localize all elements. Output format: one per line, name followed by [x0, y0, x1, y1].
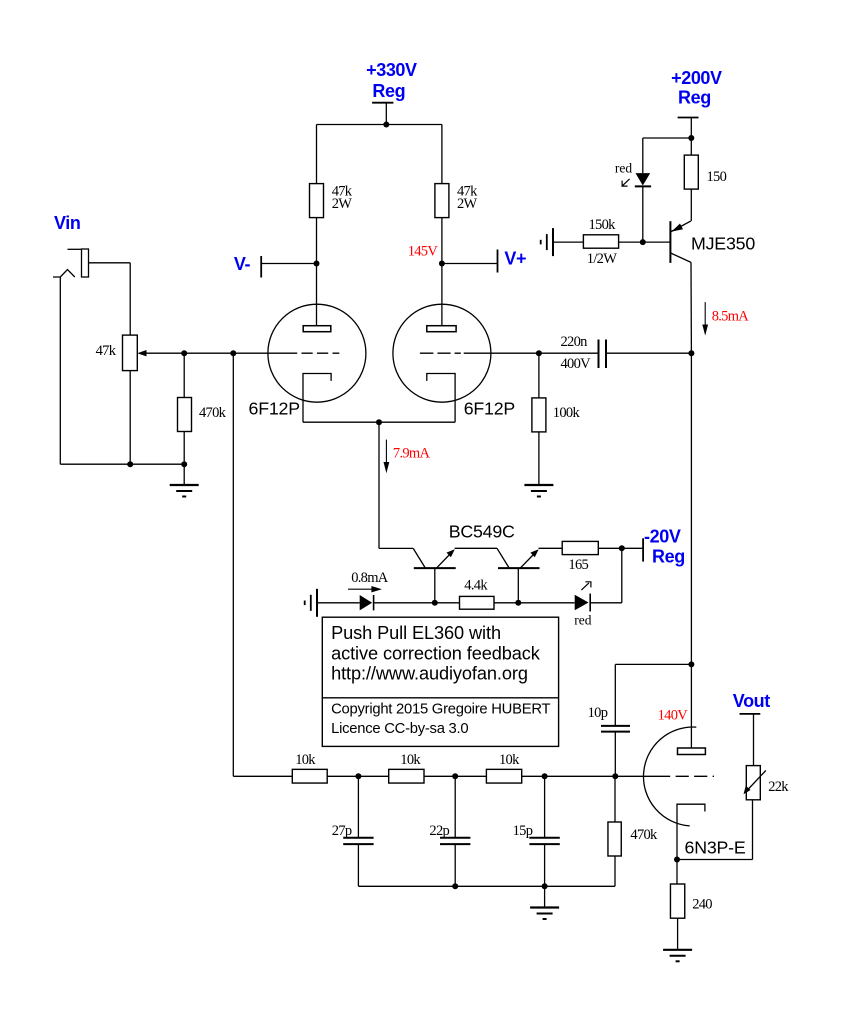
svg-text:470k: 470k — [630, 827, 658, 843]
svg-text:22k: 22k — [768, 779, 789, 795]
svg-text:165: 165 — [568, 557, 588, 573]
svg-text:red: red — [574, 613, 591, 628]
svg-text:15p: 15p — [513, 823, 533, 839]
svg-text:47k: 47k — [96, 343, 117, 359]
svg-text:+200V: +200V — [671, 68, 722, 88]
svg-text:220n: 220n — [561, 334, 589, 350]
svg-text:145V: 145V — [408, 244, 439, 260]
svg-text:Vout: Vout — [733, 691, 770, 711]
svg-text:1/2W: 1/2W — [587, 251, 617, 267]
svg-text:Licence CC-by-sa 3.0: Licence CC-by-sa 3.0 — [331, 721, 468, 737]
svg-text:4.4k: 4.4k — [464, 578, 488, 594]
svg-text:2W: 2W — [457, 196, 478, 212]
svg-text:470k: 470k — [199, 405, 227, 421]
svg-text:10p: 10p — [588, 705, 608, 721]
svg-text:10k: 10k — [295, 752, 316, 768]
svg-text:10k: 10k — [400, 752, 421, 768]
svg-text:8.5mA: 8.5mA — [712, 308, 750, 324]
svg-text:Reg: Reg — [372, 81, 405, 101]
svg-text:Reg: Reg — [652, 547, 685, 567]
svg-text:2W: 2W — [332, 196, 353, 212]
svg-text:active correction feedback: active correction feedback — [331, 643, 541, 663]
svg-text:V+: V+ — [504, 249, 526, 269]
svg-text:6F12P: 6F12P — [249, 399, 300, 419]
svg-text:10k: 10k — [499, 752, 520, 768]
svg-text:http://www.audiyofan.org: http://www.audiyofan.org — [331, 664, 528, 684]
svg-text:240: 240 — [692, 897, 712, 913]
svg-text:7.9mA: 7.9mA — [393, 445, 431, 461]
svg-text:0.8mA: 0.8mA — [351, 570, 389, 586]
svg-text:+330V: +330V — [366, 60, 417, 80]
svg-text:27p: 27p — [332, 823, 352, 839]
svg-text:140V: 140V — [658, 707, 689, 723]
svg-text:100k: 100k — [553, 405, 581, 421]
svg-text:150k: 150k — [589, 217, 617, 233]
svg-text:150: 150 — [707, 169, 727, 185]
svg-text:-20V: -20V — [644, 527, 681, 547]
svg-text:Vin: Vin — [54, 213, 80, 233]
svg-text:Reg: Reg — [678, 87, 711, 107]
svg-text:BC549C: BC549C — [449, 522, 515, 542]
svg-text:Push Pull EL360 with: Push Pull EL360 with — [331, 623, 501, 643]
svg-text:6F12P: 6F12P — [464, 399, 515, 419]
svg-text:22p: 22p — [429, 823, 449, 839]
svg-text:V-: V- — [234, 254, 251, 274]
svg-text:6N3P-E: 6N3P-E — [685, 838, 746, 858]
svg-text:400V: 400V — [561, 356, 592, 372]
svg-text:Copyright 2015 Gregoire HUBERT: Copyright 2015 Gregoire HUBERT — [331, 701, 550, 717]
svg-text:red: red — [615, 161, 632, 176]
svg-text:MJE350: MJE350 — [691, 234, 755, 254]
